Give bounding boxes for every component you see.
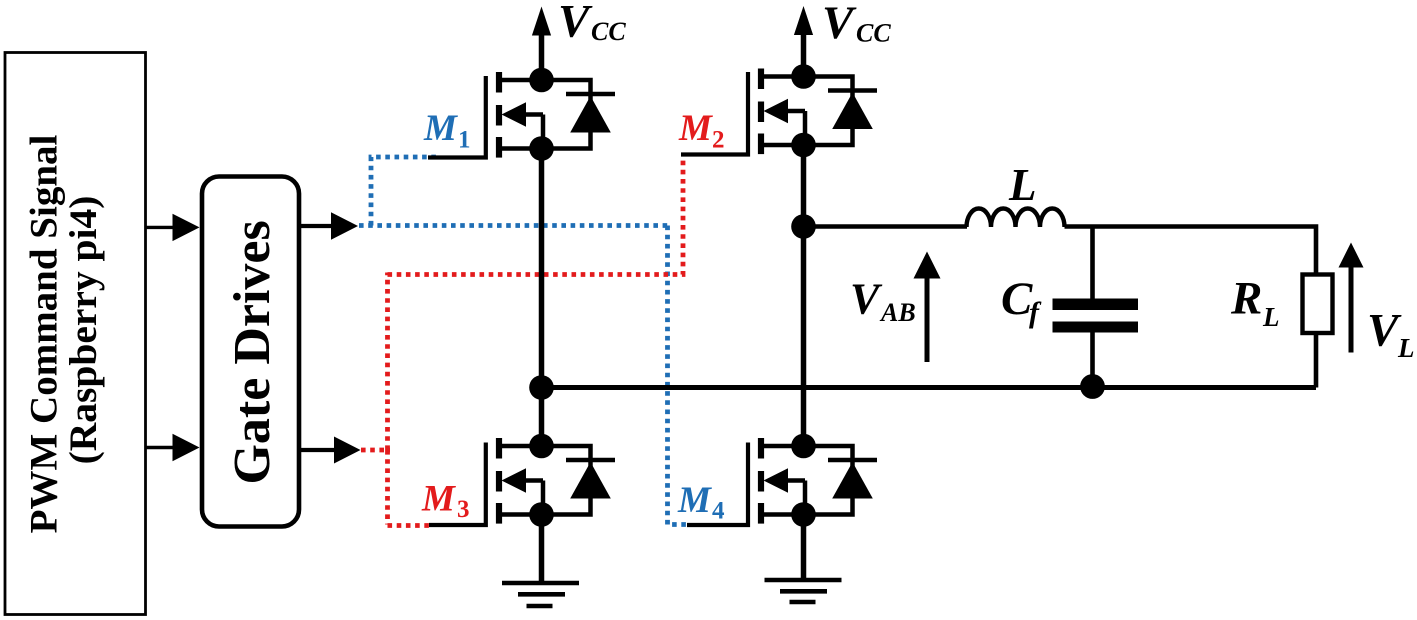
body arrow M4 <box>764 468 789 492</box>
svg-text:2: 2 <box>712 127 725 154</box>
svg-text:Gate Drives: Gate Drives <box>224 220 281 484</box>
svg-text:1: 1 <box>458 127 471 154</box>
wire PWM to gate drives (top) <box>146 226 174 229</box>
wire gate drives output (bottom) <box>301 448 335 452</box>
gate lead M4 <box>687 443 748 526</box>
blue dotted net: drop to M4 gate <box>668 226 689 525</box>
transistor M4 <box>758 434 877 527</box>
drain stub M2 <box>762 74 804 79</box>
wire RL bottom to rail <box>1314 333 1319 388</box>
drain stub M4 <box>762 444 804 449</box>
body diode triangle M3 <box>570 462 611 499</box>
body diode wiring M1 <box>542 80 616 149</box>
source stub M4 <box>762 512 804 517</box>
transistor M1 <box>496 68 615 161</box>
blue dotted net: riser to M1 gate <box>371 157 437 226</box>
source stub M2 <box>762 143 804 148</box>
channel segments M2 <box>758 69 764 90</box>
source junction dot M2 <box>791 133 816 158</box>
VCC arrowhead left <box>532 7 551 36</box>
body connection wire M1 <box>526 112 544 117</box>
svg-text:V: V <box>850 275 883 324</box>
gate drives box <box>202 177 299 527</box>
blue dotted net: horizontal run to M4 column <box>359 223 670 228</box>
ground left <box>502 583 579 606</box>
wire M2 source through node A to M4 drain <box>801 145 807 446</box>
source junction dot M3 <box>529 502 554 527</box>
bottom rail node B to RL <box>542 385 1317 390</box>
body arrow M1 <box>502 102 527 126</box>
arrowhead into gate drives (bottom) <box>173 434 200 461</box>
svg-text:V: V <box>1367 305 1402 357</box>
wire M4 source to ground <box>801 515 807 581</box>
red dotted net: stub to M3 gate <box>388 523 433 528</box>
channel segments M3 <box>496 438 502 459</box>
arrowhead into gate drives (top) <box>173 214 200 241</box>
body diode triangle M4 <box>832 462 873 499</box>
arrowhead gate drives output (top) <box>331 212 358 239</box>
VCC lead left <box>539 34 545 80</box>
wire gate drives output (top) <box>301 224 332 228</box>
svg-text:V: V <box>558 0 593 48</box>
drain junction dot M1 <box>529 68 554 93</box>
svg-text:CC: CC <box>856 19 891 48</box>
svg-text:(Raspberry pi4): (Raspberry pi4) <box>61 196 105 465</box>
body connection wire M2 <box>788 109 806 114</box>
body arrow M2 <box>764 99 789 123</box>
red dotted net: horizontal run to M2 column <box>388 158 684 275</box>
body diode wiring M2 <box>804 77 878 146</box>
VL arrow <box>1349 267 1354 353</box>
drain junction dot M2 <box>791 64 816 89</box>
body diode triangle M1 <box>570 96 611 133</box>
svg-text:3: 3 <box>457 496 470 523</box>
PWM box label <box>23 134 66 533</box>
svg-text:4: 4 <box>712 498 725 525</box>
capacitor Cf lead top <box>1090 227 1095 300</box>
gate lead M2 <box>681 72 748 155</box>
wire PWM to gate drives (bottom) <box>146 446 174 449</box>
svg-text:L: L <box>1397 333 1415 363</box>
VAB arrow <box>925 277 930 362</box>
body diode wiring M3 <box>542 446 616 515</box>
drain stub M3 <box>500 444 542 449</box>
body diode wiring M4 <box>804 446 878 515</box>
capacitor Cf lead bottom <box>1090 332 1095 388</box>
ground right <box>765 580 842 602</box>
node B junction dot <box>529 375 554 400</box>
source junction dot M1 <box>529 136 554 161</box>
body connection wire M3 <box>526 478 544 483</box>
resistor RL body <box>1303 275 1333 334</box>
body connection wire M4 <box>788 478 806 483</box>
wire node A to inductor <box>804 224 968 228</box>
node A junction dot <box>791 214 816 239</box>
inductor L <box>967 209 1065 228</box>
arrowhead gate drives output (bottom) <box>334 437 361 464</box>
transistor M3 <box>496 434 615 527</box>
svg-text:M: M <box>678 108 713 149</box>
red dotted net: riser and drop <box>385 273 390 451</box>
svg-text:M: M <box>423 108 458 149</box>
svg-text:PWM Command Signal: PWM Command Signal <box>23 134 66 533</box>
body arrow M3 <box>502 468 527 492</box>
source stub M1 <box>500 146 542 151</box>
drain junction dot M4 <box>791 434 816 459</box>
red dotted net: stub from arrow <box>361 448 390 453</box>
svg-text:L: L <box>1008 160 1037 210</box>
svg-text:AB: AB <box>879 298 916 327</box>
PWM command signal box <box>5 53 146 615</box>
drain junction dot M3 <box>529 434 554 459</box>
source junction dot M4 <box>791 502 816 527</box>
svg-text:R: R <box>1230 273 1262 325</box>
gate drives label <box>224 220 281 484</box>
capacitor Cf plates <box>1053 299 1139 311</box>
gate lead M1 <box>428 76 486 158</box>
wire M3 source to ground <box>539 515 545 584</box>
VCC arrowhead right <box>794 6 813 35</box>
drain stub M1 <box>500 78 542 83</box>
svg-text:CC: CC <box>591 17 626 46</box>
svg-text:M: M <box>421 479 456 520</box>
gate lead M3 <box>429 443 486 526</box>
junction dot Cf on rail <box>1080 374 1105 399</box>
transistor M2 <box>758 64 877 157</box>
svg-text:M: M <box>677 480 712 521</box>
wire M1 source to node B to M3 drain <box>539 149 545 447</box>
wire inductor to right corner, down to RL <box>1065 227 1317 276</box>
svg-text:V: V <box>822 0 857 49</box>
VCC lead right <box>801 33 807 77</box>
channel segments M4 <box>758 438 764 459</box>
body diode triangle M2 <box>832 93 873 130</box>
svg-text:L: L <box>1262 302 1280 332</box>
source stub M3 <box>500 512 542 517</box>
channel segments M1 <box>496 72 502 93</box>
